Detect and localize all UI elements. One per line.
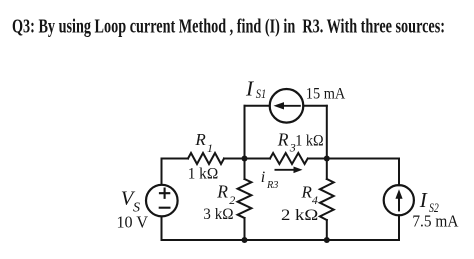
current source IS1 arrow (points left) xyxy=(274,102,301,109)
svg-text:1 kΩ: 1 kΩ xyxy=(295,133,324,150)
current source IS1 circle xyxy=(270,89,304,123)
label IS1 xyxy=(245,76,266,101)
label iR3 xyxy=(261,169,279,191)
resistor R3 xyxy=(270,153,308,164)
svg-text:1: 1 xyxy=(207,141,213,155)
svg-text:7.5 mA: 7.5 mA xyxy=(412,212,458,231)
label R4 xyxy=(301,182,318,207)
svg-text:i: i xyxy=(261,169,265,186)
svg-text:R: R xyxy=(277,130,289,150)
voltage source VS circle xyxy=(146,185,178,217)
svg-text:15 mA: 15 mA xyxy=(306,86,346,103)
voltage source VS plus sign xyxy=(159,188,170,199)
svg-text:3 kΩ: 3 kΩ xyxy=(203,206,233,223)
wire: middle rail left segment (Vs node to R1) xyxy=(162,158,189,160)
svg-text:10 V: 10 V xyxy=(117,212,149,231)
wire: top branch left vertical xyxy=(244,106,246,159)
label IS2 xyxy=(419,188,439,215)
svg-text:I: I xyxy=(245,76,254,100)
wire: R4 top lead xyxy=(326,159,328,180)
svg-text:4: 4 xyxy=(312,193,318,207)
label VS xyxy=(121,188,140,216)
current arrow iR3 xyxy=(275,167,303,174)
wire: R2 top lead xyxy=(244,159,246,180)
wire: top branch right vertical xyxy=(326,106,328,159)
svg-text:2: 2 xyxy=(229,193,235,207)
junction node: R2 bottom on bottom rail xyxy=(242,237,248,243)
svg-text:Q3: By using Loop current Meth: Q3: By using Loop current Method , find … xyxy=(12,16,445,38)
svg-text:R3: R3 xyxy=(266,179,279,191)
wire: right vertical from Is2 to bottom rail xyxy=(398,215,400,240)
current source IS2 arrow (points up) xyxy=(395,189,402,211)
svg-text:R: R xyxy=(216,182,228,202)
resistor R1 xyxy=(188,153,224,164)
wire: top branch left horizontal xyxy=(245,105,270,107)
wire: R2 bottom lead xyxy=(244,218,246,240)
junction node: R4 bottom on bottom rail xyxy=(324,237,330,243)
wire: top branch right horizontal xyxy=(303,105,327,107)
svg-text:I: I xyxy=(419,188,428,212)
junction node: R2 top on middle rail xyxy=(242,156,248,162)
wire: R4 bottom lead xyxy=(326,220,328,240)
wire: right vertical from rail to Is2 xyxy=(398,159,400,186)
label R2 xyxy=(216,182,235,207)
svg-text:S1: S1 xyxy=(256,86,267,101)
svg-text:2 kΩ: 2 kΩ xyxy=(281,207,318,224)
wire: middle rail segment R3 to right branch xyxy=(308,158,399,160)
svg-text:R: R xyxy=(301,182,313,201)
resistor R4 xyxy=(320,179,334,220)
svg-text:R: R xyxy=(194,130,206,149)
label R1 xyxy=(194,130,213,155)
current source IS2 circle xyxy=(384,185,414,215)
wire: left vertical from Vs to bottom rail xyxy=(161,217,163,241)
resistor R2 xyxy=(238,179,252,218)
wire: middle rail segment R1 to node A xyxy=(224,158,270,160)
voltage source VS minus sign xyxy=(159,207,171,209)
junction node: R4 top on middle rail xyxy=(324,156,330,162)
svg-text:1 kΩ: 1 kΩ xyxy=(188,163,219,182)
wire: left vertical from rail to Vs xyxy=(161,159,163,184)
label R3 xyxy=(277,130,296,155)
wire: bottom rail xyxy=(162,239,400,241)
